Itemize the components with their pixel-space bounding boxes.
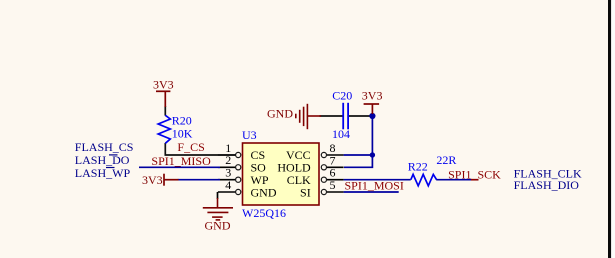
svg-text:SPI1_MOSI: SPI1_MOSI [345, 179, 404, 193]
svg-text:SI: SI [300, 185, 311, 199]
svg-text:U3: U3 [242, 128, 257, 142]
svg-text:3V3: 3V3 [153, 77, 174, 91]
svg-text:FLASH_CS: FLASH_CS [75, 140, 134, 154]
svg-text:GND: GND [251, 185, 277, 199]
svg-text:SPI1_SCK: SPI1_SCK [448, 168, 501, 182]
svg-text:LASH_WP: LASH_WP [75, 166, 131, 180]
svg-text:FLASH_DIO: FLASH_DIO [514, 178, 580, 192]
svg-text:R22: R22 [408, 160, 428, 174]
svg-text:104: 104 [332, 127, 350, 141]
svg-text:22R: 22R [436, 153, 456, 167]
svg-text:R20: R20 [172, 114, 192, 128]
svg-text:W25Q16: W25Q16 [242, 206, 286, 220]
svg-text:3V3: 3V3 [362, 88, 383, 102]
svg-text:SPI1_MISO: SPI1_MISO [151, 154, 211, 168]
svg-text:C20: C20 [332, 88, 352, 102]
svg-text:3V3: 3V3 [142, 173, 163, 187]
svg-text:GND: GND [205, 218, 231, 232]
svg-text:F_CS: F_CS [177, 140, 204, 154]
svg-text:10K: 10K [172, 127, 193, 141]
svg-text:GND: GND [267, 107, 293, 121]
